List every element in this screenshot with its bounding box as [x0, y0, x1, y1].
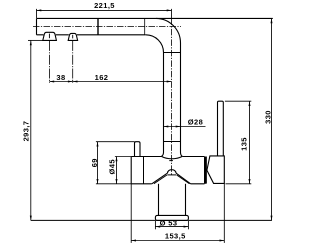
dim 221,5 right extension — [171, 9, 173, 19]
spout bottom edge segments — [37, 34, 146, 36]
svg-text:Ø45: Ø45 — [108, 159, 117, 174]
spout joint divider — [97, 18, 99, 34]
dim 153,5 right extension — [223, 183, 225, 243]
svg-text:69: 69 — [90, 158, 99, 167]
arrows o53 — [155, 226, 160, 228]
arrows 293,7 — [30, 40, 32, 45]
bump 1 center tick — [48, 34, 50, 39]
cone peak dome — [167, 170, 176, 173]
body left end — [130, 157, 132, 184]
svg-text:38: 38 — [56, 73, 65, 82]
dim o45 top extension — [115, 156, 131, 158]
dim 69 top extension — [96, 141, 135, 143]
svg-text:Ø28: Ø28 — [188, 117, 203, 126]
dim o53 left extension — [154, 221, 156, 229]
handle block pentagon — [207, 156, 224, 184]
elbow outer arc — [156, 18, 181, 43]
cone inner slope left — [154, 175, 167, 184]
spout top edge + 330 top extension — [37, 17, 273, 19]
cone chord line — [167, 174, 176, 176]
svg-text:162: 162 — [95, 73, 109, 82]
dim 221,5 left extension — [36, 9, 38, 18]
dim 153,5 line — [131, 240, 224, 242]
dim 135 top extension — [225, 100, 251, 102]
svg-text:Ø 53: Ø 53 — [160, 218, 178, 227]
dim 221,5 line — [37, 9, 172, 11]
arrows o28 — [164, 126, 169, 128]
dim 330 line — [271, 18, 273, 220]
dim 153,5 left extension — [130, 184, 132, 243]
dim 69 line — [97, 142, 99, 184]
dim 69/o45 bottom extension — [96, 183, 131, 185]
aerator bump 1 — [43, 32, 57, 40]
arrows 153,5 — [131, 240, 136, 242]
riser ring joint — [164, 141, 181, 143]
arrows 135 — [249, 101, 251, 106]
handle stick — [218, 101, 224, 156]
dim 38-162 line — [49, 81, 171, 83]
spout left end — [36, 18, 38, 34]
dim o28 line — [164, 126, 206, 128]
spout tube joint — [144, 18, 146, 34]
dim 293,7 top extension — [28, 39, 43, 41]
body bottom edges — [131, 183, 204, 185]
arrows 221,5 — [37, 9, 42, 11]
riser bell bottom — [161, 153, 182, 159]
bump 2 center tick — [72, 35, 74, 39]
riser pipe right wall — [180, 43, 182, 153]
cone outer slope left — [152, 173, 168, 184]
svg-text:293,7: 293,7 — [22, 121, 31, 142]
base reference line — [31, 219, 272, 221]
riser centerline — [171, 18, 173, 175]
pin lever — [135, 142, 141, 157]
svg-text:221,5: 221,5 — [94, 1, 115, 10]
dim 293,7 line — [30, 40, 32, 220]
bell under dash — [169, 160, 173, 162]
body right end cap — [205, 157, 206, 184]
svg-text:135: 135 — [240, 137, 249, 151]
cone outer slope right — [176, 173, 191, 184]
spout centerline — [33, 26, 181, 28]
elbow joint line — [164, 52, 181, 54]
arrows 69 — [97, 142, 99, 147]
dim 135 line — [249, 101, 251, 184]
svg-text:330: 330 — [263, 110, 272, 124]
body joint line — [143, 157, 145, 184]
riser pipe left wall — [163, 53, 165, 153]
aerator bump 2 — [68, 33, 77, 40]
arrows 38 — [49, 81, 54, 83]
svg-text:153,5: 153,5 — [165, 231, 186, 240]
dim o53 line — [155, 226, 188, 228]
dim 135 bottom extension — [226, 183, 252, 185]
arrows o45 — [116, 157, 118, 162]
base cylinder left wall — [158, 184, 160, 216]
bump 2 centerline extension — [72, 41, 74, 83]
dim o45 line — [116, 157, 118, 184]
arrows 162 — [73, 81, 78, 83]
arrows 330 — [271, 18, 273, 23]
base flange — [155, 215, 188, 220]
cone inner slope right — [177, 175, 190, 184]
body top edges — [131, 156, 204, 158]
dim o53 right extension — [187, 221, 189, 229]
bump 1 centerline extension — [48, 41, 50, 83]
base cylinder right wall — [185, 184, 187, 216]
handle ring line — [205, 157, 207, 184]
elbow inner arc — [146, 35, 164, 53]
